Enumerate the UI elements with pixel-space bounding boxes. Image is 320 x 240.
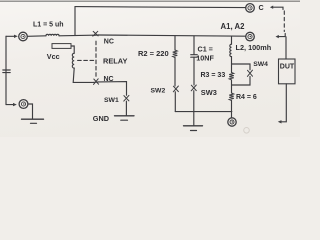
svg-text:R4 = 6: R4 = 6 <box>236 94 257 101</box>
wire NC line to SW1 <box>99 82 127 96</box>
svg-text:R2 = 220: R2 = 220 <box>138 49 169 58</box>
wire SW2 to bottom bus <box>174 92 176 112</box>
svg-text:C: C <box>259 3 264 12</box>
capacitor C1 branch <box>193 36 195 55</box>
svg-text:R3 = 33: R3 = 33 <box>201 72 226 79</box>
wire left rail vertical <box>5 36 7 104</box>
wire riser to top bus <box>74 7 76 36</box>
resistor R4 <box>229 93 234 100</box>
switch SW1 <box>124 95 129 101</box>
ground G2 <box>184 126 203 131</box>
wire SW1 to ground <box>125 101 127 115</box>
inductor L1 <box>46 34 59 36</box>
wire arrow at C <box>270 6 283 10</box>
node A1,A2 connector <box>246 32 255 41</box>
svg-text:10NF: 10NF <box>196 54 214 63</box>
resistor relay feed box <box>52 44 71 49</box>
svg-text:Vcc: Vcc <box>47 52 60 61</box>
wire DUT top riser <box>285 37 287 59</box>
node input connector <box>19 32 28 41</box>
wire dashed relay actuator horizontal <box>78 59 94 61</box>
svg-text:A1, A2: A1, A2 <box>221 22 246 31</box>
wire arrow at A1,A2 <box>276 34 286 39</box>
svg-text:NC: NC <box>104 39 114 46</box>
wire bottom bus <box>175 111 232 113</box>
wire DUT bottom to arrow <box>281 84 287 122</box>
inductor L2 branch <box>231 36 233 44</box>
ground G3 <box>22 119 44 123</box>
wire SW3 through bus to ground <box>193 91 195 126</box>
wire main bus left <box>28 35 47 38</box>
resistor R2 branch <box>174 36 176 50</box>
svg-text:NC: NC <box>104 76 114 83</box>
component DUT box <box>279 59 296 84</box>
wire top bus <box>75 7 246 8</box>
svg-text:SW1: SW1 <box>104 97 119 104</box>
svg-text:L1 = 5 uh: L1 = 5 uh <box>33 22 64 29</box>
svg-text:RELAY: RELAY <box>103 56 127 65</box>
scan artifact faint ring <box>244 128 250 134</box>
svg-text:L2, 100mh: L2, 100mh <box>236 43 272 52</box>
ground G1 <box>115 116 135 120</box>
switch SW2 <box>173 86 178 92</box>
svg-text:SW2: SW2 <box>151 88 166 95</box>
svg-text:DUT: DUT <box>280 63 295 70</box>
relay contact K1a <box>93 31 99 36</box>
wire main bus right <box>98 35 245 36</box>
top figure border <box>0 0 300 2</box>
wire coil to contact K1b <box>73 68 93 82</box>
wire box to relay coil <box>71 46 74 53</box>
wire dashed relay actuator vertical <box>95 41 97 78</box>
wire arrow into input connector <box>6 35 18 38</box>
svg-text:GND: GND <box>93 114 109 123</box>
node C connector <box>246 4 255 13</box>
wire dashed linkage right <box>283 11 285 32</box>
resistor R3 <box>229 72 234 79</box>
svg-text:SW3: SW3 <box>201 88 217 97</box>
svg-text:SW4: SW4 <box>253 61 268 68</box>
capacitor on left rail <box>3 70 10 73</box>
switch SW3 <box>191 85 196 91</box>
relay coil K1 <box>72 53 74 68</box>
node bottom-right connector <box>228 118 236 126</box>
node bottom-left connector <box>19 100 28 109</box>
relay contact K1b <box>93 79 98 85</box>
wire arrow into bottom-left connector <box>6 103 17 106</box>
switch SW4 <box>247 70 252 76</box>
svg-text:C1 =: C1 = <box>198 45 213 54</box>
wire SW4 parallel loop <box>232 64 251 70</box>
wire main bus to contact <box>59 34 93 37</box>
wire from bottom-left connector to ground <box>28 104 33 119</box>
